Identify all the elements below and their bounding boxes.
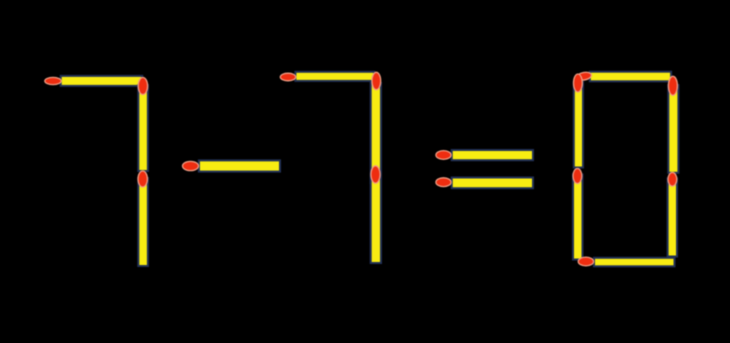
node: match head, 0 left lower vertical (top end) xyxy=(573,169,582,184)
node: match head, 0 left upper vertical (top end) xyxy=(574,74,583,92)
wire: digit 0 right upper vertical matchstick xyxy=(668,85,678,173)
node: match head, equals top (left end) xyxy=(436,151,451,160)
node: match head, first 7 upper vertical (top end) xyxy=(138,78,147,95)
wire: digit 0 left lower vertical matchstick xyxy=(573,175,583,260)
node: match head, second 7 lower vertical (top end) xyxy=(371,166,380,183)
wire: equals sign top matchstick xyxy=(452,150,533,160)
wire: digit 0 right lower vertical matchstick xyxy=(668,178,677,256)
wire: digit 0 left upper vertical matchstick xyxy=(574,82,583,168)
node: match head, equals bottom (left end) xyxy=(436,178,451,187)
node: match head, second 7 upper vertical (top end) xyxy=(372,72,381,89)
wire: digit 0 bottom horizontal matchstick xyxy=(594,258,675,267)
node: match head, first 7 horizontal (left end) xyxy=(45,77,61,84)
wire: digit 7 (first) lower vertical matchstick xyxy=(138,178,148,266)
wire: digit 0 top horizontal matchstick xyxy=(590,72,671,82)
wire: digit 7 (first) upper vertical matchstick xyxy=(138,85,148,171)
wire: digit 7 (second) lower vertical matchstick xyxy=(371,174,381,263)
node: match head, first 7 lower vertical (top end) xyxy=(138,171,147,187)
node: match head, minus sign (left end) xyxy=(183,161,199,170)
wire: minus sign matchstick xyxy=(199,160,280,171)
node: match head, 0 right upper vertical (top end) xyxy=(668,76,677,95)
node: match head, 0 top horizontal (left end) xyxy=(576,71,592,81)
wire: digit 7 (second) upper vertical matchstick xyxy=(371,83,381,183)
node: match head, second 7 horizontal (left end) xyxy=(280,73,295,81)
wire: digit 7 (second) top horizontal matchstick xyxy=(295,72,374,81)
node: match head, 0 bottom horizontal (left end) xyxy=(578,257,593,266)
wire: digit 7 (first) top horizontal matchstick xyxy=(61,76,143,86)
wire: equals sign bottom matchstick xyxy=(452,178,533,189)
node: match head, 0 right lower vertical (top end) xyxy=(668,173,677,187)
